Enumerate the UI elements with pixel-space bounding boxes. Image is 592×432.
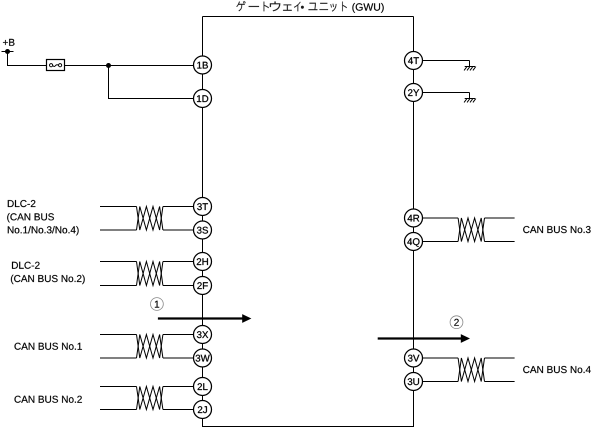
- wire 4T to ground: [414, 60, 470, 62]
- label DLC-2 (CAN BUS No.2): [11, 262, 85, 284]
- ground G1: [464, 61, 476, 71]
- twisted pair wires CAN BUS No.4: [414, 358, 515, 382]
- terminal 2L: [194, 378, 212, 396]
- terminal 3X: [194, 326, 212, 344]
- fuse F1: [47, 60, 65, 71]
- wire fuse to junction: [65, 65, 109, 67]
- twisted pair wires DLC-2 CAN No.2: [100, 262, 203, 286]
- terminal 1D: [194, 90, 212, 108]
- wire junction to 1D: [109, 66, 203, 99]
- twisted pair wires CAN BUS No.2: [100, 387, 203, 410]
- junction node: [106, 63, 111, 68]
- circled number 1: [151, 298, 164, 311]
- label CAN BUS No.1: [15, 343, 82, 350]
- wire +B to fuse: [8, 52, 47, 66]
- terminal 3W: [194, 349, 212, 367]
- terminal 1B: [194, 56, 212, 74]
- terminal 2J: [194, 401, 212, 419]
- terminal 2H: [194, 253, 212, 271]
- label CAN BUS No.3: [523, 226, 590, 233]
- flow arrow 1: [158, 314, 252, 323]
- gateway unit GWU box outline: [203, 17, 414, 427]
- terminal 3U: [405, 373, 423, 391]
- terminal 2F: [194, 277, 212, 295]
- twisted pair wires CAN BUS No.1: [100, 335, 203, 359]
- node +B battery terminal: [2, 49, 14, 54]
- terminal 3T: [194, 198, 212, 216]
- twisted pair wires DLC-2 CAN No.1/No.3/No.4: [100, 207, 203, 231]
- wire 2Y to ground: [414, 92, 470, 94]
- label gateway unit title (katakana): [236, 1, 346, 12]
- label (GWU): [352, 3, 383, 13]
- terminal 4Q: [405, 233, 423, 251]
- circled number 2: [450, 316, 463, 329]
- terminal 2Y: [405, 84, 423, 102]
- label CAN BUS No.4: [523, 366, 591, 373]
- wire junction to 1B: [109, 65, 203, 67]
- ground G2: [464, 93, 476, 103]
- label +B: [3, 39, 15, 46]
- flow arrow 2: [378, 334, 470, 343]
- label CAN BUS No.2: [15, 396, 82, 403]
- terminal 4R: [405, 209, 423, 227]
- twisted pair wires CAN BUS No.3: [414, 218, 515, 242]
- terminal 3V: [405, 349, 423, 367]
- label DLC-2 (CAN BUS No.1/No.3/No.4): [7, 200, 78, 235]
- terminal 4T: [405, 52, 423, 70]
- terminal 3S: [194, 221, 212, 239]
